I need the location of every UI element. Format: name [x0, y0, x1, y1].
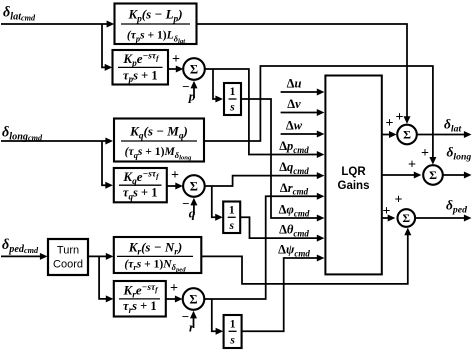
svg-text:Δv: Δv — [287, 97, 301, 111]
svg-text:p: p — [188, 89, 196, 104]
svg-text:+: + — [171, 168, 179, 183]
svg-text:+: + — [386, 116, 394, 131]
svg-text:+: + — [421, 146, 429, 161]
svg-text:Δu: Δu — [287, 77, 302, 91]
svg-text:Σ: Σ — [403, 128, 411, 142]
svg-text:Δw: Δw — [286, 119, 303, 133]
svg-text:+: + — [383, 204, 391, 219]
svg-text:Gains: Gains — [338, 180, 370, 192]
svg-text:+: + — [408, 158, 416, 173]
svg-text:1: 1 — [230, 86, 236, 98]
svg-text:Coord: Coord — [53, 259, 83, 271]
svg-text:τps + 1: τps + 1 — [123, 68, 158, 84]
svg-text:q: q — [189, 206, 196, 221]
svg-text:+: + — [172, 52, 180, 67]
svg-text:s: s — [228, 220, 234, 232]
svg-text:s: s — [229, 102, 235, 114]
svg-text:Σ: Σ — [189, 292, 197, 306]
svg-text:Σ: Σ — [190, 62, 198, 76]
svg-text:+: + — [396, 110, 404, 125]
svg-text:τrs + 1: τrs + 1 — [123, 299, 157, 315]
svg-text:Σ: Σ — [403, 213, 411, 225]
svg-text:LQR: LQR — [341, 166, 366, 178]
svg-text:1: 1 — [230, 319, 236, 331]
svg-text:+: + — [170, 281, 178, 296]
svg-text:1: 1 — [229, 205, 235, 217]
svg-text:s: s — [229, 335, 235, 347]
svg-text:Turn: Turn — [57, 245, 79, 257]
svg-text:τqs + 1: τqs + 1 — [123, 186, 158, 202]
svg-text:+: + — [395, 193, 403, 208]
svg-text:Σ: Σ — [429, 168, 437, 182]
svg-text:Σ: Σ — [190, 179, 198, 193]
